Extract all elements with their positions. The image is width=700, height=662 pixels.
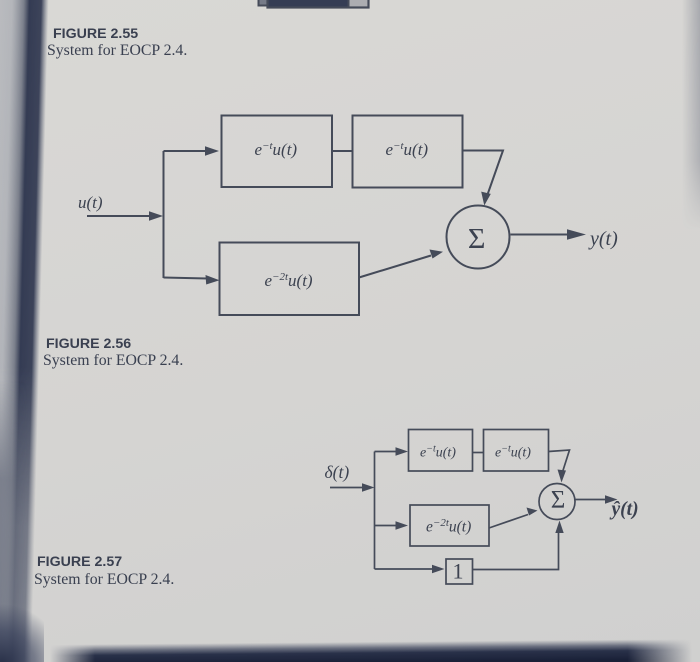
svg-text:1: 1: [453, 559, 464, 584]
svg-text:e−2tu(t): e−2tu(t): [426, 517, 471, 536]
svg-text:e−tu(t): e−tu(t): [386, 140, 429, 159]
svg-text:ŷ(t): ŷ(t): [610, 499, 639, 520]
svg-text:e−tu(t): e−tu(t): [420, 444, 456, 461]
svg-text:δ(t): δ(t): [325, 462, 350, 482]
svg-text:Σ: Σ: [551, 487, 566, 514]
svg-text:e−tu(t): e−tu(t): [255, 140, 298, 159]
svg-text:e−2tu(t): e−2tu(t): [265, 271, 313, 290]
svg-text:e−tu(t): e−tu(t): [495, 444, 531, 461]
svg-text:u(t): u(t): [78, 193, 103, 212]
svg-text:Σ: Σ: [468, 224, 486, 255]
svg-text:y(t): y(t): [588, 228, 618, 250]
